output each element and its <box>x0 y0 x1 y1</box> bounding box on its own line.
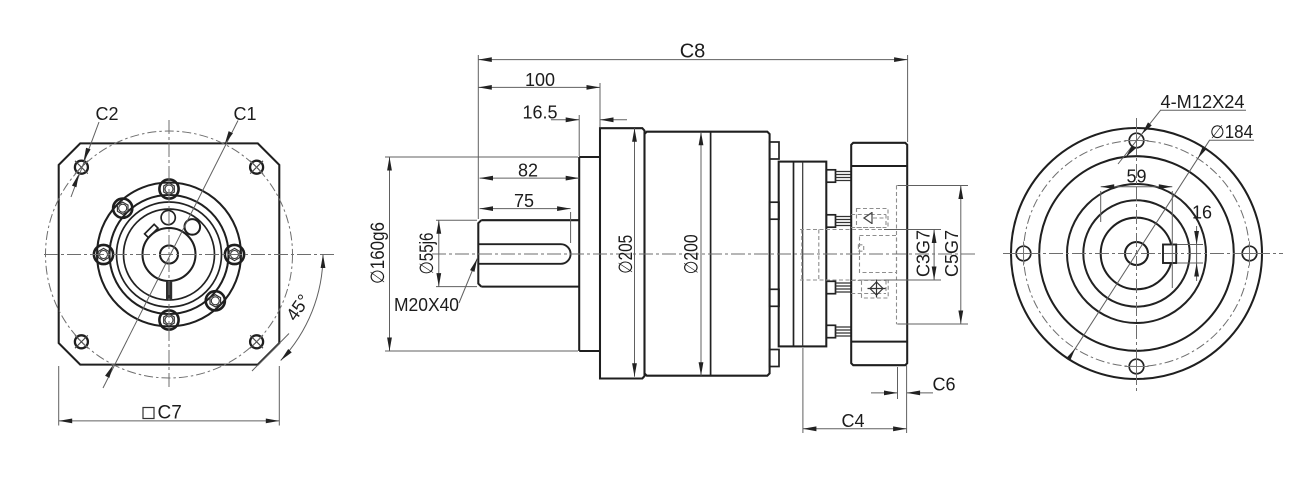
dimension 59 <box>1101 166 1173 288</box>
socket screw 315 deg <box>206 291 225 310</box>
45 deg angular dimension arc <box>252 255 325 372</box>
svg-text:C7: C7 <box>158 403 182 424</box>
clamp collar circle <box>124 209 215 300</box>
dimension 16.5 <box>522 102 627 156</box>
svg-text:59: 59 <box>1126 166 1146 186</box>
hidden tapped holes <box>851 215 886 294</box>
bolt hole left <box>1012 242 1036 266</box>
corner mounting hole bottom-left <box>75 335 88 348</box>
square flange outline with chamfered corners <box>59 143 280 364</box>
hidden clamp collar <box>860 236 897 273</box>
rear plate <box>779 162 827 347</box>
main centerline middle view <box>432 253 975 255</box>
flange ring circle <box>110 195 229 314</box>
socket screw 180 deg <box>94 245 113 264</box>
svg-text:∅200: ∅200 <box>682 234 703 274</box>
outer circle <box>1011 128 1262 379</box>
keyway in bore <box>1163 245 1176 264</box>
dimension C6 <box>871 367 956 399</box>
svg-text:16: 16 <box>1192 203 1212 223</box>
ring gear boss 2 <box>770 202 779 219</box>
inner step circle <box>1067 184 1206 323</box>
phi184 diameter leader diagonal <box>1066 140 1254 361</box>
socket screw 0 deg <box>225 245 244 264</box>
corner mounting hole top-right <box>250 161 263 174</box>
ring gear boss 4 <box>770 350 779 367</box>
label 45 deg <box>282 291 314 325</box>
svg-text:∅184: ∅184 <box>1210 122 1253 142</box>
dimension C8 <box>478 41 907 220</box>
flange face circle <box>1039 156 1234 351</box>
hidden plug symbol bottom <box>858 245 888 298</box>
ring gear boss 1 <box>770 142 779 159</box>
leader 4-M12X24 <box>1118 110 1246 164</box>
label C2 <box>95 104 118 124</box>
center hole <box>1125 242 1148 265</box>
bolt circle phi184 (dash-dot) <box>1024 141 1250 367</box>
leader line C2 <box>71 122 99 197</box>
rear screws <box>826 170 851 338</box>
dimension phi200 <box>682 132 704 376</box>
svg-text:C8: C8 <box>680 41 706 63</box>
svg-text:C4: C4 <box>841 411 864 431</box>
svg-text:∅55j6: ∅55j6 <box>417 233 438 275</box>
step circle <box>1083 200 1189 306</box>
corner mounting hole top-left <box>75 161 88 174</box>
svg-text:M20X40: M20X40 <box>394 295 459 315</box>
body divider line <box>710 132 712 376</box>
svg-text:4-M12X24: 4-M12X24 <box>1161 92 1245 112</box>
svg-text:75: 75 <box>514 191 534 211</box>
dimension 82 <box>480 161 580 181</box>
svg-text:C5G7: C5G7 <box>942 230 962 277</box>
svg-text:82: 82 <box>518 161 538 181</box>
svg-text:C3G7: C3G7 <box>914 230 934 277</box>
access hole upper <box>161 211 175 225</box>
dimension 100 <box>478 70 600 127</box>
gear body phi200 <box>645 132 770 376</box>
leader line C1 (diagonal through center) <box>103 121 238 389</box>
input bore circle <box>143 228 196 281</box>
outer pilot circle <box>97 183 241 327</box>
vertical centerline right view <box>1136 118 1138 392</box>
hidden pilot recess <box>897 186 907 325</box>
dimension phi55j6 <box>417 220 477 286</box>
shaft keyway <box>479 244 571 264</box>
label M20X40 <box>394 258 480 315</box>
svg-text:∅205: ∅205 <box>616 235 637 274</box>
dimension C3G7 <box>884 230 941 281</box>
socket screw 270 deg <box>159 310 178 329</box>
front flange phi205 <box>600 128 645 378</box>
keyway slot at bottom of bore <box>166 281 172 300</box>
output shaft <box>478 220 579 286</box>
horizontal centerline right view <box>1003 253 1283 255</box>
label 4-M12X24 <box>1161 92 1245 112</box>
svg-text:16.5: 16.5 <box>522 102 557 122</box>
svg-text:100: 100 <box>525 70 555 90</box>
dimension phi160g6 <box>368 157 578 351</box>
socket screw 90 deg <box>159 179 178 198</box>
dimension 16 <box>1177 203 1212 282</box>
center hole <box>160 246 178 264</box>
dimension C5G7 <box>898 186 968 325</box>
ring gear boss 3 <box>770 289 779 306</box>
dimension C4 <box>803 348 907 433</box>
label C1 <box>233 104 256 124</box>
bolt circle (dash-dot) <box>46 131 293 378</box>
access hole upper-right <box>185 219 201 235</box>
dimension square C7 <box>59 366 280 426</box>
svg-text:C1: C1 <box>233 104 256 124</box>
input adapter flange <box>851 143 907 365</box>
clamp slot tab at 135 deg <box>145 224 158 237</box>
hidden bore lines <box>800 230 897 281</box>
pilot cylinder phi160 <box>579 157 600 351</box>
dimension 75 <box>480 191 571 243</box>
label phi184 <box>1210 122 1253 142</box>
hidden clamp screw symbol top <box>857 209 889 228</box>
socket screw 135 deg <box>113 199 132 218</box>
svg-text:C2: C2 <box>95 104 118 124</box>
vertical centerline left view <box>168 120 170 387</box>
svg-text:C6: C6 <box>932 375 955 395</box>
bolt hole right <box>1238 242 1262 266</box>
corner mounting hole bottom-right <box>250 335 263 348</box>
dimension phi205 <box>616 128 637 377</box>
coupling bore circle <box>1101 218 1173 290</box>
bolt hole top <box>1125 129 1149 153</box>
horizontal centerline left view <box>44 254 337 256</box>
bolt hole bottom <box>1125 355 1149 379</box>
svg-text:∅160g6: ∅160g6 <box>368 222 389 284</box>
spigot circle <box>117 202 222 307</box>
